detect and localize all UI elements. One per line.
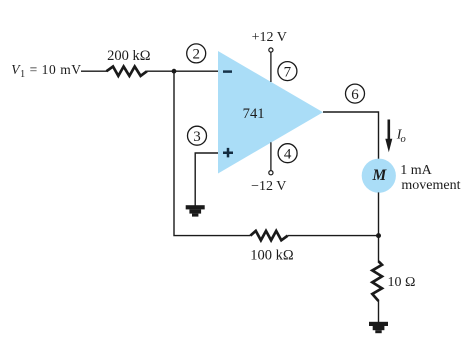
resistor 10 Ohm vertical zigzag: [372, 261, 382, 301]
pin circle 6: [346, 84, 365, 103]
resistor R1 200 kOhm zigzag: [107, 67, 148, 76]
node junction bottom right: [376, 233, 381, 238]
pin circle 2: [187, 44, 206, 63]
svg-text:1 mA: 1 mA: [400, 163, 432, 178]
svg-text:M: M: [372, 167, 388, 184]
wire input left: [81, 70, 107, 72]
wire output from op-amp: [323, 112, 379, 159]
wire junction to resistor 10 Ohm: [378, 236, 380, 262]
op-amp U1 741 triangle: [218, 51, 323, 174]
svg-text:2: 2: [192, 47, 200, 63]
svg-text:741: 741: [243, 106, 265, 122]
svg-text:6: 6: [351, 87, 359, 103]
pin circle 3: [188, 126, 207, 145]
svg-text:4: 4: [284, 147, 292, 163]
svg-text:7: 7: [284, 64, 292, 80]
pin circle 7: [278, 62, 297, 81]
pin 7 supply line: [270, 52, 272, 82]
wire resistor to ground: [378, 301, 380, 323]
ground bottom right: [369, 322, 388, 333]
svg-text:movement: movement: [401, 178, 460, 193]
svg-text:10 Ω: 10 Ω: [388, 275, 416, 290]
wire meter to bottom junction: [378, 192, 380, 235]
current arrow Io: [385, 120, 392, 153]
node junction at inverting input: [172, 69, 177, 74]
svg-text:100 kΩ: 100 kΩ: [250, 248, 294, 264]
pin 4 supply line: [270, 142, 272, 171]
ground at noninverting input: [186, 205, 205, 216]
wire noninverting input to ground: [195, 153, 218, 206]
wire feedback bottom right: [288, 235, 379, 237]
pin circle 4: [278, 144, 297, 163]
pin 4 terminal circle: [269, 171, 273, 175]
svg-text:−12 V: −12 V: [251, 179, 286, 194]
svg-text:3: 3: [193, 129, 201, 145]
wire feedback left vertical: [174, 71, 250, 235]
minus sign inverting input: [223, 70, 232, 73]
meter M circle: [362, 159, 396, 193]
plus sign noninverting input: [223, 148, 233, 158]
wire resistor to inverting input: [147, 70, 218, 72]
pin 7 terminal circle: [269, 48, 273, 52]
svg-text:+12 V: +12 V: [252, 30, 287, 45]
resistor feedback 100 kOhm zigzag: [250, 231, 287, 240]
svg-text:200 kΩ: 200 kΩ: [107, 48, 151, 64]
